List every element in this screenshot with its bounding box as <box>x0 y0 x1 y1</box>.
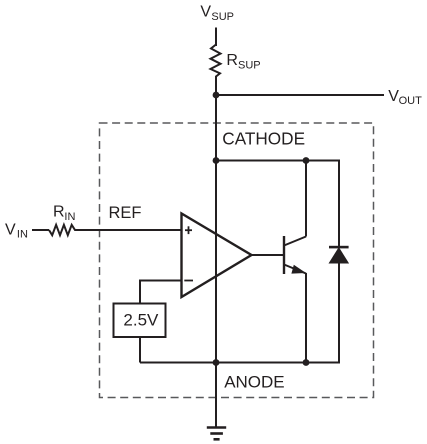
svg-text:SUP: SUP <box>238 60 261 72</box>
svg-text:V: V <box>200 3 211 20</box>
svg-text:IN: IN <box>17 229 28 241</box>
svg-text:R: R <box>226 52 238 69</box>
svg-text:CATHODE: CATHODE <box>222 129 305 149</box>
svg-text:ANODE: ANODE <box>224 372 284 391</box>
svg-text:V: V <box>5 222 16 239</box>
svg-text:OUT: OUT <box>399 95 423 107</box>
svg-text:IN: IN <box>64 211 75 223</box>
svg-text:R: R <box>53 204 65 221</box>
svg-text:SUP: SUP <box>211 11 234 23</box>
svg-text:REF: REF <box>109 204 142 222</box>
svg-text:2.5V: 2.5V <box>123 311 159 330</box>
svg-text:V: V <box>388 88 399 105</box>
